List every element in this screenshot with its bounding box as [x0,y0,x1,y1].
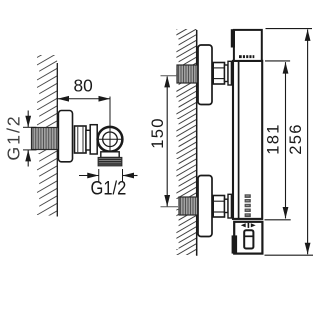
svg-text:256: 256 [286,123,305,155]
svg-text:181: 181 [264,123,283,155]
svg-text:G1/2: G1/2 [4,114,24,160]
svg-text:80: 80 [73,75,92,95]
svg-text:G1/2: G1/2 [91,178,127,199]
svg-text:150: 150 [148,117,167,149]
